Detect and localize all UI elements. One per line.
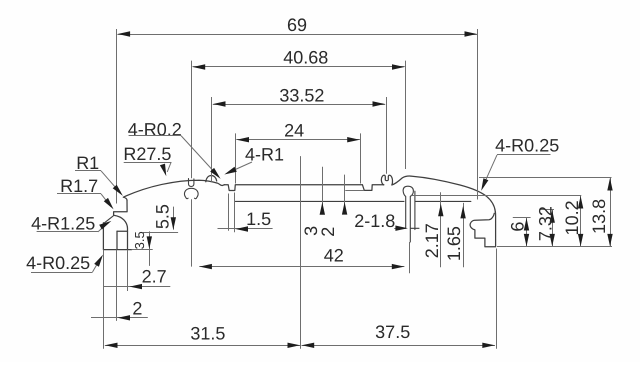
svg-text:7.32: 7.32 — [535, 206, 555, 241]
dimension 2.7 — [104, 286, 170, 288]
dimension 13.8 — [610, 178, 612, 247]
svg-text:R27.5: R27.5 — [123, 144, 171, 164]
svg-text:31.5: 31.5 — [190, 323, 225, 343]
dimension 5.5 — [173, 207, 175, 230]
svg-text:33.52: 33.52 — [279, 85, 324, 105]
dimension 13.8 extension — [479, 177, 612, 179]
dimension 40.68 extension lines — [191, 61, 193, 179]
profile top wall underside — [235, 200, 471, 202]
dimension 2.17 — [440, 192, 442, 267]
svg-text:5.5: 5.5 — [152, 204, 172, 229]
dimension 2 (slot wall thickness) — [344, 175, 346, 214]
svg-text:4-R0.25: 4-R0.25 — [495, 136, 559, 156]
profile left foot chamfer — [104, 216, 114, 224]
profile left arc R27.5 (top surface) — [123, 176, 224, 201]
svg-text:2: 2 — [132, 298, 142, 318]
svg-text:6: 6 — [508, 222, 528, 232]
dimension 31.5 / 37.5 outer extension lines — [103, 250, 105, 349]
dimension 24 extension lines — [235, 133, 237, 183]
svg-text:4-R1: 4-R1 — [245, 145, 284, 165]
slot bottom extension line — [345, 190, 364, 192]
svg-text:42: 42 — [324, 246, 344, 266]
dimension 7.32 extension — [540, 209, 554, 211]
dimension 7.32 — [552, 210, 554, 247]
dimension 5.5 extension — [143, 232, 178, 234]
profile right end: edge, foot pocket and cover hook — [470, 212, 495, 247]
svg-text:1.65: 1.65 — [444, 226, 464, 261]
svg-text:1.5: 1.5 — [246, 209, 271, 229]
bottom extension line right side — [497, 246, 612, 248]
profile left foot: pocket walls and bottom — [103, 223, 131, 250]
svg-text:13.8: 13.8 — [589, 199, 609, 234]
svg-text:4-R0.2: 4-R0.2 — [128, 120, 182, 140]
svg-text:4-R1.25: 4-R1.25 — [31, 214, 95, 234]
dimension 10.2 — [580, 196, 582, 247]
dimension 6 extension — [513, 217, 531, 219]
dimension 69 — [117, 34, 477, 36]
svg-text:2-1.8: 2-1.8 — [354, 211, 395, 231]
dimension 10.2 extension — [412, 195, 582, 197]
dimension 40.68 — [193, 66, 405, 68]
profile left end: step, foot top and cover hook — [114, 200, 128, 231]
centerline extension — [300, 156, 302, 349]
svg-text:37.5: 37.5 — [375, 322, 410, 342]
dimension 24 — [236, 139, 360, 141]
dimension 69 extension lines — [116, 29, 118, 204]
screw boss right (tulip on shoulder) — [381, 175, 392, 185]
dimension 33.52 extension lines — [211, 97, 213, 182]
svg-text:40.68: 40.68 — [283, 47, 328, 67]
dimension 2 bottom left — [91, 317, 148, 319]
svg-text:R1: R1 — [76, 153, 99, 173]
svg-text:4-R0.25: 4-R0.25 — [26, 253, 90, 273]
dimension 1.65 — [463, 203, 465, 267]
svg-text:3.5: 3.5 — [132, 231, 147, 249]
svg-text:24: 24 — [284, 120, 304, 140]
svg-text:10.2: 10.2 — [562, 200, 582, 235]
dimension 37.5 — [302, 345, 496, 347]
dimension 3 (wall thickness) — [322, 167, 324, 214]
dimension 42 extension lines — [191, 199, 193, 266]
dimension 2.7 extension — [127, 250, 129, 291]
profile right arc (top surface) — [411, 176, 495, 211]
svg-text:69: 69 — [287, 15, 307, 35]
profile channel floor with two clip slots — [225, 185, 384, 191]
svg-text:2.7: 2.7 — [142, 267, 167, 287]
dimension 6 — [526, 218, 528, 247]
dimension 31.5 — [105, 345, 300, 347]
dimension 1.5 extension lines — [228, 194, 230, 231]
svg-text:2.17: 2.17 — [422, 223, 442, 258]
screw boss left (C-port under arc) — [184, 179, 198, 199]
dimension 3.5 extension — [132, 249, 153, 251]
dimension 2 bottom left extension — [116, 250, 118, 321]
dimension 33.52 — [213, 104, 385, 106]
dimension 3.5 — [149, 231, 151, 266]
dimension 1.5 — [218, 228, 273, 230]
svg-text:2: 2 — [318, 227, 338, 237]
profile right shoulder rise — [392, 176, 411, 185]
dimension 42 — [199, 266, 404, 268]
dimension 2-1.8 leader — [394, 228, 405, 230]
profile support leg with bulb — [403, 186, 419, 242]
